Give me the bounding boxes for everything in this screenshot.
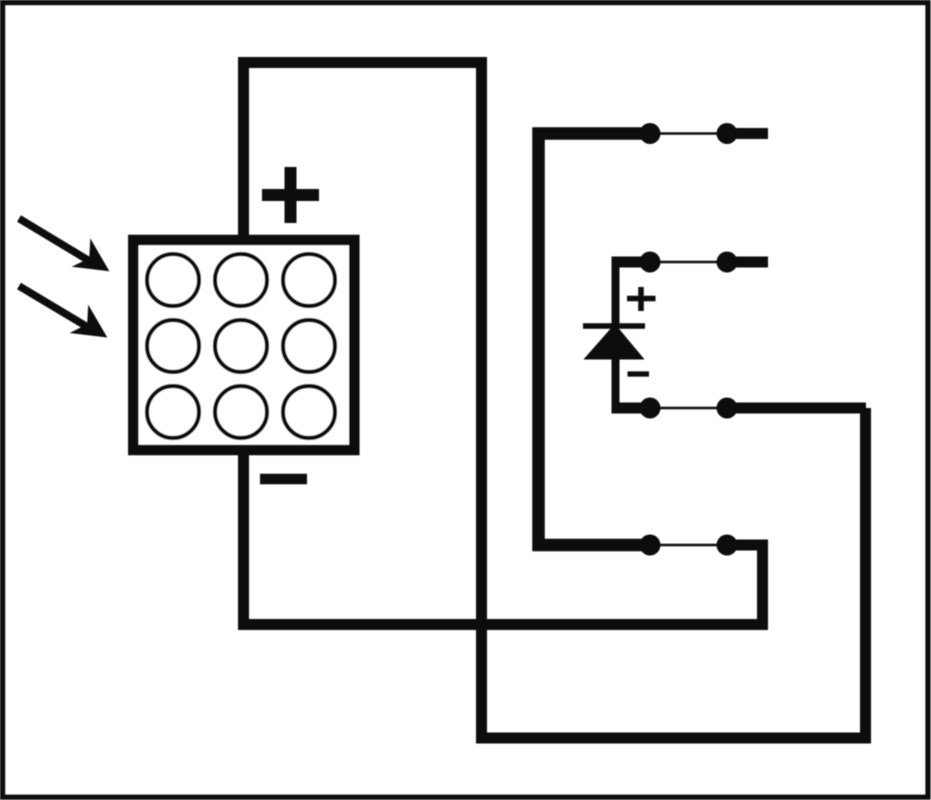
wire W2b: row 4 right thick segment [727,540,763,551]
terminal node row4 left [640,535,661,556]
wire: row 1 contact gap (thin) [650,132,727,135]
diode cathode label - [628,371,650,376]
light arrow 1 [19,219,109,272]
wire: row 3 contact gap (thin) [650,407,727,410]
wire: diode branch upper vertical [612,257,620,327]
diode D1 [583,325,645,360]
wire W2: panel - down, right, up to terminal row 4 right [244,450,763,625]
terminal node row3 right [717,398,738,419]
terminal node row2 right [717,252,738,273]
solar cell circles 3x3 [147,254,335,438]
wire: row 3 left segment to diode branch [612,403,651,414]
wire: row 2 right stub [727,257,768,268]
terminal node row3 left [640,398,661,419]
wire: row 1 right stub [727,128,768,139]
terminal node row1 right [717,123,738,144]
light arrow 2 [19,286,107,338]
diode anode label + [627,287,656,311]
panel positive terminal label + [262,167,319,223]
terminal node row4 right [717,535,738,556]
wire: row 2 contact gap (thin) [650,261,727,264]
wire: row 2 left segment to diode branch [612,257,651,268]
terminal node row2 left [640,252,661,273]
wire W1: panel + up over and down to bottom, to terminal row 3 right [244,63,866,739]
terminal node row1 left [640,123,661,144]
wire: diode branch lower vertical [612,357,620,414]
wire W3: terminal row 4 left, up to terminal row 1 left [539,134,651,546]
panel negative terminal label - [260,474,307,485]
solar panel PV1 [133,240,354,450]
wire: row 4 contact gap (thin) [650,544,727,547]
wire: row 3 right thick segment to W1 [727,403,866,414]
